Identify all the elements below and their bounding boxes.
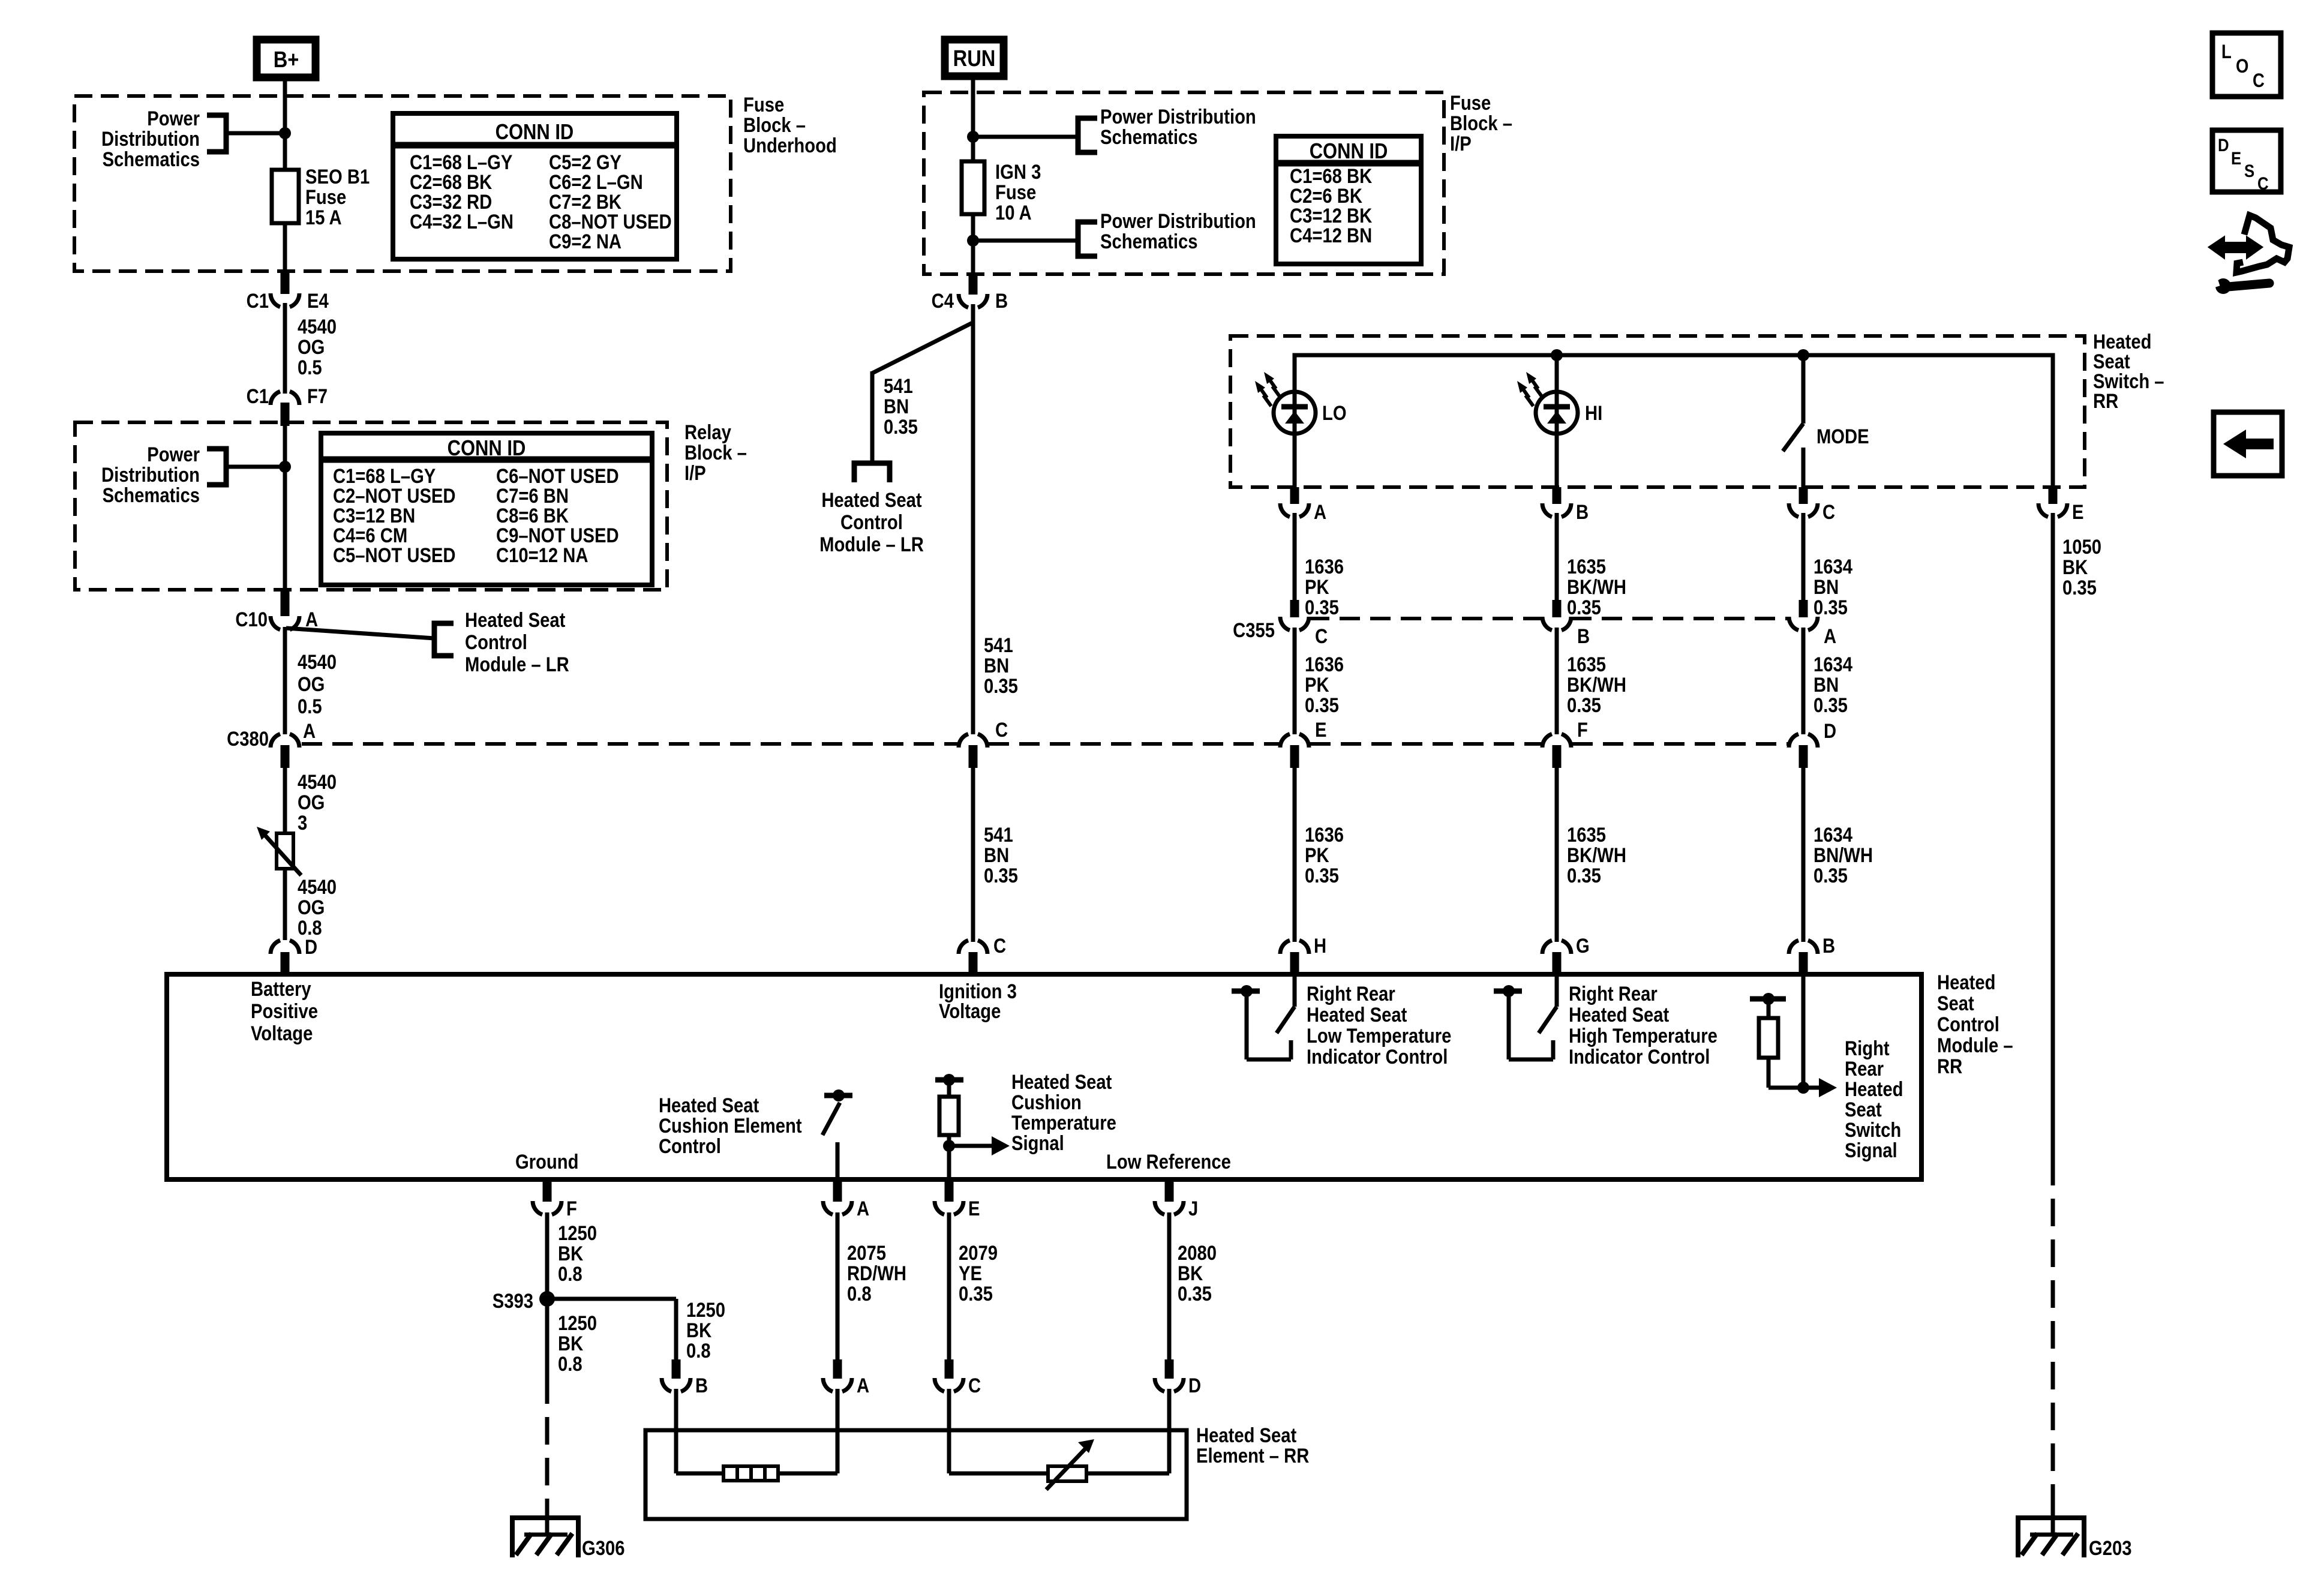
LED indicator HI bbox=[1517, 355, 1578, 434]
wire 2079 YE bbox=[947, 1212, 951, 1362]
svg-text:C1: C1 bbox=[247, 289, 269, 313]
wire 1635 BKWH seg2 bbox=[1555, 628, 1559, 734]
value label 4540 OG 3 bbox=[298, 770, 337, 834]
svg-text:0.35: 0.35 bbox=[884, 415, 918, 439]
wire 1634 BN seg1 bbox=[1801, 513, 1806, 602]
svg-text:C: C bbox=[968, 1374, 981, 1397]
arrow heated seat cushion temperature signal bbox=[949, 1136, 1010, 1155]
connector harness pin D bbox=[1789, 719, 1836, 768]
label heated seat element RR bbox=[1196, 1424, 1309, 1467]
wire to power distribution bracket 4 bbox=[973, 239, 1078, 243]
value label 1636 PK 0.35 b bbox=[1305, 653, 1344, 717]
svg-text:E: E bbox=[968, 1197, 980, 1220]
label power distribution schematics 2 bbox=[101, 443, 200, 507]
wire 541 BN main bbox=[971, 304, 975, 734]
label SEO B1 fuse bbox=[305, 165, 370, 229]
svg-text:MODE: MODE bbox=[1816, 425, 1869, 448]
svg-text:0.35: 0.35 bbox=[984, 674, 1018, 698]
svg-text:Heated Seat: Heated Seat bbox=[1196, 1424, 1297, 1447]
svg-text:Cushion: Cushion bbox=[1011, 1091, 1082, 1114]
switch high temp indicator control bbox=[1494, 974, 1557, 1059]
resistor cushion temperature sensor bbox=[935, 1074, 963, 1179]
node switch signal junction bbox=[1797, 1082, 1809, 1094]
svg-text:C380: C380 bbox=[227, 727, 269, 751]
connector pin E cushion temp signal bbox=[935, 1179, 980, 1220]
label Fuse Block Underhood bbox=[743, 93, 837, 157]
connector switch pin B bbox=[1542, 487, 1589, 524]
svg-text:C: C bbox=[2257, 173, 2269, 193]
label heated seat cushion element control bbox=[659, 1094, 802, 1158]
wire inside fuse block IP bbox=[971, 94, 975, 161]
fuse block underhood dashed box bbox=[74, 96, 731, 271]
ground G203 bbox=[2018, 1518, 2084, 1557]
reference bracket heated seat control module LR 2 bbox=[854, 463, 890, 482]
svg-text:Fuse: Fuse bbox=[305, 185, 346, 209]
svg-text:0.35: 0.35 bbox=[959, 1282, 993, 1305]
value label 541 BN 0.35 branch bbox=[884, 374, 918, 439]
label ignition 3 voltage bbox=[939, 980, 1017, 1023]
label IGN 3 fuse bbox=[995, 160, 1041, 224]
svg-text:D: D bbox=[1188, 1374, 1201, 1397]
svg-text:4540: 4540 bbox=[298, 315, 337, 338]
svg-text:BN: BN bbox=[1813, 673, 1839, 697]
wire 1634 BN seg2 bbox=[1801, 628, 1806, 734]
wire element A drop bbox=[778, 1389, 837, 1473]
svg-text:I/P: I/P bbox=[1450, 132, 1472, 155]
svg-text:BK: BK bbox=[558, 1242, 583, 1265]
wire to power distribution bracket 2 bbox=[225, 465, 285, 469]
svg-text:0.35: 0.35 bbox=[1178, 1282, 1212, 1305]
connector pin G high temp indicator input bbox=[1542, 934, 1590, 974]
wire 1635 BKWH seg1 bbox=[1555, 513, 1559, 602]
svg-text:C: C bbox=[993, 934, 1006, 957]
connector pin D battery positive input bbox=[271, 935, 317, 974]
wire to power distribution bracket bbox=[225, 131, 285, 136]
svg-text:F: F bbox=[566, 1197, 577, 1220]
label HI bbox=[1585, 401, 1602, 425]
svg-text:Low Temperature: Low Temperature bbox=[1307, 1024, 1451, 1047]
svg-text:0.5: 0.5 bbox=[298, 695, 322, 718]
value label 1250 BK 0.8 lower bbox=[558, 1311, 597, 1376]
connector pin H low temp indicator input bbox=[1280, 934, 1326, 974]
reference bracket heated seat control module LR bbox=[434, 623, 454, 656]
svg-text:OG: OG bbox=[298, 673, 325, 696]
svg-text:High Temperature: High Temperature bbox=[1569, 1024, 1718, 1047]
svg-text:B: B bbox=[695, 1374, 708, 1397]
svg-text:C5–NOT USED: C5–NOT USED bbox=[333, 544, 456, 567]
svg-text:1050: 1050 bbox=[2062, 535, 2101, 559]
module heated seat control module RR box bbox=[167, 974, 1921, 1179]
svg-text:BK/WH: BK/WH bbox=[1567, 843, 1626, 867]
svg-text:BN/WH: BN/WH bbox=[1813, 843, 1873, 867]
svg-text:I/P: I/P bbox=[684, 461, 706, 485]
CONN ID table relay block bbox=[321, 433, 652, 585]
svg-text:E: E bbox=[2072, 500, 2083, 524]
svg-text:1250: 1250 bbox=[558, 1311, 597, 1335]
svg-text:SEO B1: SEO B1 bbox=[305, 165, 370, 188]
svg-text:E: E bbox=[1315, 718, 1326, 742]
wire to power distribution bracket 3 bbox=[973, 135, 1078, 139]
wire ground stub G203 bbox=[2051, 1501, 2055, 1536]
svg-text:1636: 1636 bbox=[1305, 653, 1344, 676]
icon DESC box bbox=[2212, 130, 2281, 193]
svg-text:BK/WH: BK/WH bbox=[1567, 673, 1626, 697]
svg-text:HI: HI bbox=[1585, 401, 1602, 425]
svg-text:H: H bbox=[1314, 934, 1326, 957]
value label 4540 OG 0.8 bbox=[298, 875, 337, 939]
wire inside relay block bbox=[283, 425, 287, 591]
svg-text:0.8: 0.8 bbox=[847, 1282, 872, 1305]
wire S393 branch to element bbox=[547, 1299, 676, 1362]
node junction IP tap 1 bbox=[967, 131, 979, 143]
svg-text:1635: 1635 bbox=[1567, 823, 1606, 846]
svg-text:BN: BN bbox=[984, 843, 1009, 867]
label right rear heated seat low temperature indicator control bbox=[1307, 982, 1451, 1068]
connector element pin C bbox=[935, 1359, 981, 1397]
svg-text:Distribution: Distribution bbox=[101, 463, 200, 487]
svg-text:1634: 1634 bbox=[1813, 823, 1852, 846]
label heated seat control module LR 2 bbox=[819, 488, 924, 556]
svg-text:OG: OG bbox=[298, 896, 325, 919]
svg-text:BN: BN bbox=[984, 654, 1009, 677]
svg-text:C4=32 L–GN: C4=32 L–GN bbox=[410, 210, 514, 233]
svg-text:Fuse: Fuse bbox=[1450, 91, 1491, 115]
connector harness pin F bbox=[1542, 718, 1588, 768]
label G306 bbox=[582, 1536, 624, 1560]
svg-text:E: E bbox=[2231, 148, 2241, 168]
value label 2075 RDWH 0.8 bbox=[847, 1241, 906, 1305]
node junction at power distribution tap bbox=[279, 127, 291, 139]
svg-text:Control: Control bbox=[840, 511, 903, 534]
power distribution schematics reference bracket bbox=[207, 115, 226, 152]
wire 1636 PK seg1 bbox=[1293, 513, 1297, 602]
svg-text:0.8: 0.8 bbox=[558, 1262, 582, 1286]
variable resistor element temperature bbox=[1046, 1439, 1094, 1490]
svg-text:10 A: 10 A bbox=[995, 201, 1032, 224]
value label 4540 OG 0.5 lower bbox=[298, 650, 337, 718]
connector switch pin A bbox=[1280, 487, 1326, 524]
svg-text:CONN ID: CONN ID bbox=[448, 437, 526, 461]
svg-text:3: 3 bbox=[298, 811, 307, 834]
svg-text:RD/WH: RD/WH bbox=[847, 1262, 906, 1285]
svg-text:Right Rear: Right Rear bbox=[1569, 982, 1658, 1005]
label right rear heated seat switch signal bbox=[1845, 1037, 1903, 1162]
power distribution schematics reference bracket 4 bbox=[1078, 222, 1097, 256]
wire element B drop bbox=[676, 1389, 723, 1473]
svg-text:YE: YE bbox=[959, 1262, 982, 1285]
svg-text:0.35: 0.35 bbox=[1567, 596, 1601, 619]
value label 1634 BN 0.35 b bbox=[1813, 653, 1852, 717]
splice S393 bbox=[493, 1289, 555, 1313]
svg-text:Indicator Control: Indicator Control bbox=[1307, 1045, 1448, 1068]
svg-text:1636: 1636 bbox=[1305, 555, 1344, 578]
svg-text:Block –: Block – bbox=[743, 113, 806, 137]
svg-text:O: O bbox=[2236, 56, 2248, 77]
svg-text:OG: OG bbox=[298, 791, 325, 814]
label ground bbox=[515, 1150, 578, 1173]
svg-text:B: B bbox=[1576, 500, 1589, 524]
svg-text:RR: RR bbox=[2093, 389, 2118, 413]
svg-text:RR: RR bbox=[1937, 1055, 1962, 1078]
svg-text:0.35: 0.35 bbox=[1567, 864, 1601, 887]
svg-text:S393: S393 bbox=[493, 1289, 533, 1313]
svg-text:0.35: 0.35 bbox=[1305, 596, 1339, 619]
svg-text:E4: E4 bbox=[307, 289, 329, 313]
value label 2080 BK 0.35 bbox=[1178, 1241, 1217, 1305]
svg-text:RUN: RUN bbox=[953, 46, 996, 71]
svg-text:CONN ID: CONN ID bbox=[1310, 140, 1388, 164]
svg-text:Module –: Module – bbox=[1937, 1034, 2013, 1057]
label low reference bbox=[1106, 1150, 1231, 1173]
variable resistance wire element 4540 bbox=[257, 827, 301, 875]
connector C4 pin B bbox=[932, 275, 1008, 313]
svg-text:2079: 2079 bbox=[959, 1241, 998, 1265]
wire ground stub G306 bbox=[545, 1501, 550, 1536]
wire 1635 BKWH seg3 bbox=[1555, 768, 1559, 942]
wire fuse to connector E4 bbox=[283, 223, 287, 273]
svg-text:Voltage: Voltage bbox=[939, 999, 1001, 1023]
svg-text:F7: F7 bbox=[307, 385, 328, 408]
svg-text:C: C bbox=[1822, 500, 1835, 524]
wire 4540 OG 0.8 bbox=[283, 869, 287, 940]
svg-text:0.35: 0.35 bbox=[1305, 864, 1339, 887]
svg-text:PK: PK bbox=[1305, 673, 1329, 697]
connector pin C ignition voltage input bbox=[959, 934, 1006, 974]
value label 1250 BK 0.8 upper bbox=[558, 1221, 597, 1286]
connector element pin B bbox=[662, 1359, 708, 1397]
svg-text:Heated Seat: Heated Seat bbox=[465, 608, 566, 632]
svg-text:A: A bbox=[857, 1374, 869, 1397]
label power distribution schematics 4 bbox=[1100, 209, 1256, 253]
svg-text:C4=12 BN: C4=12 BN bbox=[1290, 224, 1372, 247]
svg-text:0.35: 0.35 bbox=[1813, 864, 1848, 887]
wire B+ to fuse block bbox=[283, 78, 287, 99]
svg-text:Heated: Heated bbox=[1937, 971, 1995, 994]
svg-text:Distribution: Distribution bbox=[101, 127, 200, 151]
svg-text:C1: C1 bbox=[247, 385, 269, 408]
LED indicator LO bbox=[1255, 355, 1316, 434]
svg-text:Block –: Block – bbox=[684, 441, 747, 464]
svg-text:Heated Seat: Heated Seat bbox=[821, 488, 922, 512]
svg-text:Right: Right bbox=[1845, 1037, 1890, 1060]
label G203 bbox=[2089, 1536, 2131, 1560]
connector pin J low reference bbox=[1155, 1179, 1198, 1220]
svg-text:S: S bbox=[2244, 161, 2254, 181]
label Relay Block IP bbox=[684, 421, 747, 485]
svg-text:1250: 1250 bbox=[686, 1298, 725, 1322]
icon back arrow box bbox=[2214, 412, 2282, 476]
svg-text:C355: C355 bbox=[1233, 619, 1275, 642]
wire 1636 PK seg3 bbox=[1293, 768, 1297, 942]
svg-text:Power: Power bbox=[147, 107, 200, 130]
svg-text:Underhood: Underhood bbox=[743, 134, 837, 157]
value label 1635 BKWH 0.35 b bbox=[1567, 653, 1626, 717]
svg-text:2075: 2075 bbox=[847, 1241, 886, 1265]
value label 1635 BKWH 0.35 c bbox=[1567, 823, 1626, 887]
node bus junction MODE bbox=[1797, 349, 1809, 361]
fuse SEO B1 15A bbox=[272, 170, 299, 223]
connector pin B switch signal input bbox=[1789, 934, 1835, 974]
svg-text:Ground: Ground bbox=[515, 1150, 578, 1173]
svg-text:Control: Control bbox=[465, 631, 527, 654]
connector C355 pin B bbox=[1542, 600, 1590, 648]
wire inside fuse block bbox=[283, 97, 287, 170]
svg-text:L: L bbox=[2221, 41, 2232, 62]
svg-text:A: A bbox=[303, 719, 316, 743]
dashed harness line C380 row bbox=[302, 742, 1788, 746]
svg-text:D: D bbox=[2218, 135, 2229, 155]
label MODE bbox=[1816, 425, 1869, 448]
svg-text:B: B bbox=[995, 289, 1008, 313]
value label 1250 BK 0.8 branch bbox=[686, 1298, 725, 1362]
connector C380 pin A bbox=[227, 719, 316, 768]
icon vehicle data double arrow bbox=[2208, 215, 2289, 294]
wire 4540 OG 0.5 lower bbox=[283, 627, 287, 734]
svg-text:C: C bbox=[2253, 70, 2265, 91]
svg-text:541: 541 bbox=[984, 823, 1013, 846]
svg-text:Signal: Signal bbox=[1011, 1131, 1064, 1155]
wire element D drop bbox=[1086, 1389, 1169, 1473]
svg-text:BK: BK bbox=[558, 1332, 583, 1355]
node junction IP tap 2 bbox=[967, 235, 979, 247]
svg-text:Schematics: Schematics bbox=[103, 484, 200, 507]
svg-text:2080: 2080 bbox=[1178, 1241, 1217, 1265]
connector element pin A bbox=[823, 1359, 869, 1397]
connector switch pin C bbox=[1789, 487, 1835, 524]
svg-text:PK: PK bbox=[1305, 575, 1329, 599]
svg-text:Power Distribution: Power Distribution bbox=[1100, 209, 1256, 233]
wire LO to pin A bbox=[1293, 433, 1297, 487]
fuse block IP dashed box bbox=[924, 92, 1444, 274]
svg-text:B: B bbox=[1577, 625, 1590, 648]
connector pin A cushion element output bbox=[823, 1179, 869, 1220]
label heated seat switch RR bbox=[2093, 330, 2164, 413]
wire RUN to fuse block IP bbox=[971, 76, 975, 96]
node cushion signal junction bbox=[943, 1140, 955, 1152]
wire 4540 OG 3 bbox=[283, 768, 287, 833]
connector switch pin E bbox=[2038, 487, 2084, 524]
svg-text:J: J bbox=[1188, 1197, 1198, 1220]
wire 4540 OG 0.5 bbox=[283, 303, 287, 394]
wire 1250 BK upper bbox=[545, 1212, 550, 1299]
heating element cushion bbox=[723, 1466, 778, 1481]
svg-text:0.35: 0.35 bbox=[1305, 694, 1339, 717]
connector C1 pin F7 bbox=[247, 385, 328, 426]
wire switch supply bus bbox=[1295, 355, 2053, 487]
relay block IP dashed box bbox=[75, 422, 667, 590]
svg-text:4540: 4540 bbox=[298, 650, 337, 674]
svg-text:0.8: 0.8 bbox=[558, 1352, 582, 1376]
svg-text:Fuse: Fuse bbox=[995, 181, 1036, 204]
svg-text:Positive: Positive bbox=[251, 999, 318, 1023]
dashed harness line C355 row bbox=[1309, 617, 1789, 620]
svg-text:0.35: 0.35 bbox=[1813, 694, 1848, 717]
svg-text:C9=2 NA: C9=2 NA bbox=[549, 230, 621, 253]
module heated seat element RR box bbox=[645, 1430, 1187, 1519]
svg-text:BK: BK bbox=[1178, 1262, 1203, 1285]
node junction relay block tap bbox=[279, 461, 291, 473]
svg-text:IGN 3: IGN 3 bbox=[995, 160, 1041, 184]
value label 2079 YE 0.35 bbox=[959, 1241, 998, 1305]
svg-text:Power Distribution: Power Distribution bbox=[1100, 105, 1256, 128]
svg-text:Block –: Block – bbox=[1450, 112, 1512, 135]
svg-text:Temperature: Temperature bbox=[1011, 1111, 1116, 1134]
svg-text:B+: B+ bbox=[274, 47, 299, 73]
value label 1050 BK 0.35 bbox=[2062, 535, 2101, 599]
wire 1634 BNWH seg3 bbox=[1801, 768, 1806, 942]
svg-text:0.35: 0.35 bbox=[2062, 576, 2097, 599]
wire branch 541 to module LR bbox=[872, 323, 972, 463]
wire 2080 BK bbox=[1167, 1212, 1172, 1362]
svg-text:Module – LR: Module – LR bbox=[819, 533, 924, 556]
connector C10 pin A bbox=[235, 591, 318, 631]
heated seat switch RR dashed box bbox=[1230, 336, 2085, 487]
svg-text:CONN ID: CONN ID bbox=[496, 121, 574, 145]
value label 4540 OG 0.5 bbox=[298, 315, 337, 379]
svg-text:0.5: 0.5 bbox=[298, 356, 322, 379]
svg-text:C: C bbox=[1315, 625, 1328, 648]
svg-text:Heated Seat: Heated Seat bbox=[1307, 1003, 1407, 1026]
svg-text:BK/WH: BK/WH bbox=[1567, 575, 1626, 599]
value label 541 BN 0.35 lower bbox=[984, 823, 1018, 887]
svg-text:0.35: 0.35 bbox=[984, 864, 1018, 887]
value label 1636 PK 0.35 c bbox=[1305, 823, 1344, 887]
svg-text:Right Rear: Right Rear bbox=[1307, 982, 1395, 1005]
svg-text:D: D bbox=[305, 935, 317, 959]
svg-text:Cushion Element: Cushion Element bbox=[659, 1114, 802, 1137]
switch cushion element control bbox=[822, 1089, 852, 1179]
svg-text:Relay: Relay bbox=[684, 421, 731, 444]
svg-text:A: A bbox=[1824, 625, 1836, 648]
connector harness pin E bbox=[1280, 718, 1326, 768]
svg-text:0.35: 0.35 bbox=[1813, 596, 1848, 619]
svg-text:1635: 1635 bbox=[1567, 653, 1606, 676]
label power distribution schematics bbox=[101, 107, 200, 171]
wire HI to pin B bbox=[1555, 433, 1559, 487]
label power distribution schematics 3 bbox=[1100, 105, 1256, 149]
value label 1634 BNWH 0.35 bbox=[1813, 823, 1873, 887]
CONN ID table fuse block IP bbox=[1276, 136, 1421, 264]
svg-text:A: A bbox=[1314, 500, 1326, 524]
svg-text:Switch: Switch bbox=[1845, 1118, 1901, 1142]
wire 1050 BK bbox=[2051, 513, 2055, 1158]
svg-text:C: C bbox=[995, 718, 1008, 742]
connector C1 pin E4 bbox=[247, 272, 329, 313]
wire fuse to box edge bbox=[971, 214, 975, 275]
wire element C drop bbox=[949, 1389, 1048, 1473]
svg-text:A: A bbox=[305, 608, 318, 631]
svg-text:Heated Seat: Heated Seat bbox=[1011, 1070, 1112, 1094]
svg-text:Schematics: Schematics bbox=[1100, 230, 1197, 253]
resistor switch signal pull bbox=[1750, 993, 1803, 1088]
svg-text:1634: 1634 bbox=[1813, 653, 1852, 676]
svg-text:BK: BK bbox=[686, 1319, 711, 1342]
svg-text:C10=12 NA: C10=12 NA bbox=[496, 544, 588, 567]
svg-text:Fuse: Fuse bbox=[743, 93, 784, 116]
svg-text:G203: G203 bbox=[2089, 1536, 2131, 1560]
svg-text:1636: 1636 bbox=[1305, 823, 1344, 846]
svg-text:C10: C10 bbox=[235, 608, 268, 631]
svg-text:Seat: Seat bbox=[1937, 992, 1974, 1015]
svg-text:OG: OG bbox=[298, 335, 325, 359]
svg-text:Battery: Battery bbox=[251, 977, 311, 1001]
svg-text:BN: BN bbox=[884, 395, 909, 418]
CONN ID table underhood bbox=[393, 113, 677, 259]
value label 541 BN 0.35 mid bbox=[984, 634, 1018, 698]
wire dashed to G203 bbox=[2051, 1158, 2055, 1501]
label LO bbox=[1322, 401, 1347, 425]
svg-text:Control: Control bbox=[1937, 1013, 1999, 1036]
